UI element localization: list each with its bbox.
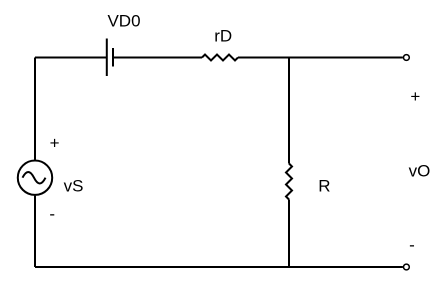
svg-text:vS: vS: [64, 177, 84, 196]
svg-text:vO: vO: [409, 161, 431, 180]
svg-text:rD: rD: [214, 26, 232, 45]
svg-text:VD0: VD0: [107, 12, 140, 31]
svg-text:+: +: [50, 133, 60, 152]
svg-text:-: -: [49, 205, 55, 224]
svg-text:R: R: [318, 176, 330, 195]
svg-text:+: +: [410, 87, 420, 106]
svg-text:-: -: [409, 236, 415, 255]
